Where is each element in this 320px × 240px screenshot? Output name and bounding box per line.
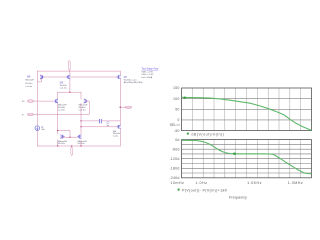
svg-text:100: 100 bbox=[173, 97, 180, 101]
transistor M5 bbox=[66, 75, 70, 80]
svg-text:L=1.6u: L=1.6u bbox=[58, 109, 66, 111]
node M3 drain tap bbox=[57, 130, 58, 131]
svg-text:1.0MHz: 1.0MHz bbox=[288, 181, 303, 185]
transistor M1 bbox=[54, 99, 58, 104]
current source I1 bbox=[35, 126, 40, 131]
node diff tail junction bbox=[69, 92, 70, 93]
node M6 gate tap bbox=[80, 126, 81, 127]
svg-text:L=1u: L=1u bbox=[113, 135, 119, 137]
wire gate bias bus bbox=[41, 76, 117, 78]
wire M4 source to rail bbox=[80, 140, 82, 146]
port V+ input bbox=[28, 100, 34, 103]
transistor M8 bbox=[40, 75, 44, 80]
x axis labels bbox=[170, 181, 303, 185]
node output junction bbox=[120, 106, 122, 108]
wire mirror gate bus M3-M4 bbox=[62, 136, 78, 138]
wire out stub bbox=[120, 106, 125, 108]
wire in- route to M2 gate bbox=[33, 101, 89, 114]
legend phase bbox=[178, 189, 180, 191]
wire node A: M2 drain to M4 drain bbox=[80, 103, 82, 133]
node VSS rail junction bbox=[71, 145, 72, 146]
node M4 source rail junction bbox=[80, 145, 81, 146]
grid top plot bbox=[182, 88, 312, 131]
svg-text:Frequency: Frequency bbox=[229, 195, 247, 199]
svg-text:-50: -50 bbox=[174, 129, 180, 133]
svg-text:MbreakP: MbreakP bbox=[25, 78, 34, 81]
transistor M4 bbox=[77, 134, 81, 139]
curve gain magnitude bbox=[182, 97, 311, 130]
svg-text:-120d: -120d bbox=[169, 157, 179, 161]
svg-text:1.0Hz: 1.0Hz bbox=[196, 181, 208, 185]
svg-text:-240d: -240d bbox=[169, 176, 179, 180]
curve phase bbox=[182, 140, 311, 173]
transistor M7 bbox=[116, 75, 120, 80]
wire M6 source to bottom rail bbox=[119, 129, 121, 146]
border bottom plot bbox=[182, 140, 312, 178]
svg-text:Iref = 30uA: Iref = 30uA bbox=[141, 76, 152, 79]
wire diff pair source tie bbox=[58, 91, 81, 93]
svg-text:P(V(out))- P(V(in))+180: P(V(out))- P(V(in))+180 bbox=[182, 189, 227, 193]
wire left rail drop (M8 source/drain column) bbox=[36, 71, 38, 126]
transistor M6 bbox=[116, 124, 120, 129]
svg-text:SEL>>: SEL>> bbox=[170, 123, 181, 127]
svg-text:0: 0 bbox=[177, 118, 179, 122]
wire M5 source to rail bbox=[69, 71, 71, 75]
svg-text:L=1.6u: L=1.6u bbox=[60, 87, 68, 89]
svg-text:v-: v- bbox=[22, 114, 24, 117]
wire M6 drain up (merge with M7 drain column) bbox=[119, 123, 121, 125]
svg-text:W=20u: W=20u bbox=[78, 143, 86, 145]
wire VSS bottom rail bbox=[37, 145, 120, 147]
title block bbox=[141, 68, 159, 79]
port V- input bbox=[28, 113, 34, 116]
svg-text:-180d: -180d bbox=[169, 166, 179, 170]
wire M7 source to rail corner bbox=[119, 71, 121, 75]
svg-text:-60d: -60d bbox=[172, 147, 180, 151]
wire M1 source up bbox=[57, 92, 59, 99]
svg-text:0d: 0d bbox=[175, 138, 179, 142]
wire M5 drain to diff pair sources bbox=[69, 80, 71, 93]
wire M3 diode tie bbox=[58, 131, 70, 138]
svg-text:AD=282p AS=282p: AD=282p AS=282p bbox=[124, 81, 144, 84]
svg-text:L=1.6u: L=1.6u bbox=[79, 109, 87, 111]
capacitor Cc wire bbox=[81, 120, 120, 122]
svg-text:L=1.6u: L=1.6u bbox=[25, 86, 33, 88]
power symbol VDD bbox=[68, 60, 70, 71]
node M3 tie junction bbox=[69, 137, 70, 138]
transistor M2 bbox=[84, 99, 88, 104]
node M3 source rail junction bbox=[57, 145, 58, 146]
grid bottom plot bbox=[182, 140, 312, 178]
wire M1 drain to M3 drain bbox=[57, 103, 59, 133]
y labels bottom plot bbox=[169, 138, 179, 180]
marker phase trace bbox=[233, 153, 235, 155]
svg-text:dB(V(out)/V(in)): dB(V(out)/V(in)) bbox=[191, 133, 224, 137]
node Cc tap on node A bbox=[80, 120, 81, 121]
legend gain bbox=[187, 133, 189, 135]
wire in+ to M1 gate bbox=[33, 100, 54, 102]
svg-text:W=20u: W=20u bbox=[58, 143, 66, 145]
wire M3 source to rail bbox=[57, 140, 59, 146]
svg-text:50: 50 bbox=[175, 108, 179, 112]
svg-text:150: 150 bbox=[173, 86, 180, 90]
power symbol VSS bbox=[71, 146, 73, 156]
wire M7 drain to output node bbox=[119, 80, 121, 125]
y labels top plot bbox=[173, 86, 180, 133]
port out bbox=[125, 106, 131, 108]
marker gain trace bbox=[184, 97, 186, 99]
wire M8 diode tie bbox=[37, 77, 41, 82]
wire I1 to bottom rail bbox=[36, 130, 38, 146]
transistor M3 bbox=[60, 134, 64, 139]
capacitor Cc bbox=[99, 119, 101, 123]
wire M6 gate to node A bbox=[81, 126, 116, 128]
svg-text:Two-Stage Amp: Two-Stage Amp bbox=[141, 68, 159, 71]
svg-text:1.0KHz: 1.0KHz bbox=[247, 181, 262, 185]
svg-text:10mHz: 10mHz bbox=[170, 181, 184, 185]
wire VDD top rail bbox=[37, 70, 120, 72]
wire M2 source up bbox=[80, 92, 82, 99]
border top plot bbox=[182, 88, 312, 131]
